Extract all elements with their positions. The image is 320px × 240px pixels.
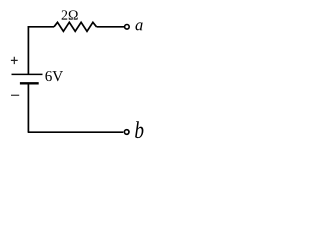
wire: battery - plate down to bottom-left corner [27,83,29,132]
terminal a (open circle) [125,25,130,30]
terminal b (open circle) [124,130,129,135]
wire: left vertical, top wire down to battery + plate [27,26,29,74]
resistor value label 2Ω [62,10,78,19]
battery V1 negative plate (short, thick) [20,82,39,84]
battery value label 6V [45,71,63,81]
node label a [135,22,142,30]
+ polarity sign [11,57,18,64]
node label b [135,121,143,138]
battery V1 positive plate (long, thin) [12,73,43,75]
resistor R (2 ohm) zigzag [54,22,97,31]
wire: resistor to terminal a [97,26,125,28]
wire: top-left horizontal from corner to resistor [28,26,54,28]
- polarity sign [11,94,19,96]
wire: bottom horizontal to terminal b [28,131,124,133]
